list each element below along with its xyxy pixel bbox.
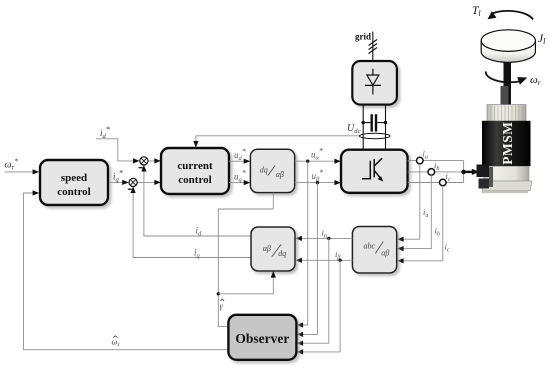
- block rectifier: [352, 61, 397, 105]
- wire u_alpha* dq/ab to inverter: [295, 159, 341, 164]
- wire U_dc measurement to current control top: [193, 136, 359, 148]
- wire u_beta* dq/ab to inverter: [295, 180, 341, 185]
- grid symbol: [369, 32, 377, 62]
- svg-text:ωr: ωr: [530, 74, 541, 87]
- svg-text:Jl: Jl: [538, 33, 546, 46]
- wire i_alpha down to observer input3: [297, 238, 329, 345]
- wire u_beta* down to observer input2: [297, 183, 318, 337]
- wire DC bus right: [385, 105, 387, 150]
- block dq/ab transform: [250, 149, 294, 192]
- svg-text:dq: dq: [278, 249, 286, 258]
- wire i_d feedback from ab/dq to summer1: [141, 165, 251, 236]
- sensor i_c: [440, 179, 447, 186]
- sensor i_b: [428, 169, 435, 176]
- wire summer1 to current control: [148, 158, 161, 163]
- block ab/dq transform: [251, 227, 295, 271]
- U_dc measurement ellipse: [359, 133, 390, 138]
- inverter IGBT symbol: [362, 158, 383, 181]
- svg-text:iq*: iq*: [113, 169, 123, 184]
- svg-text:ib: ib: [435, 226, 440, 238]
- block speed control: [40, 160, 108, 205]
- svg-text:uβ*: uβ*: [312, 168, 324, 183]
- svg-text:γ: γ: [220, 301, 224, 311]
- svg-text:iβ: iβ: [335, 249, 340, 261]
- wire gamma-hat from observer to transforms: [217, 209, 276, 327]
- summer2 circle: [129, 178, 137, 186]
- svg-text:iα: iα: [322, 228, 328, 240]
- svg-text:ic: ic: [445, 242, 450, 254]
- svg-text:αβ: αβ: [276, 170, 284, 179]
- wire i_d* reference input: [96, 139, 140, 164]
- rectifier diode symbol: [365, 69, 381, 95]
- svg-text:αβ: αβ: [263, 244, 271, 253]
- svg-text:grid: grid: [355, 32, 371, 42]
- wire u_q* current control to dq/ab: [229, 180, 250, 185]
- arrow omega_r curved: [486, 72, 527, 85]
- svg-text:control: control: [57, 186, 90, 198]
- svg-text:speed: speed: [61, 172, 87, 184]
- wire i_q* from speed control to summer: [108, 180, 129, 185]
- svg-text:dq: dq: [260, 165, 268, 174]
- summer1 circle: [140, 157, 148, 165]
- motor body PMSM: [481, 86, 533, 193]
- wire i_q feedback from ab/dq to summer2: [131, 186, 252, 257]
- svg-text:control: control: [178, 174, 211, 186]
- wire u_alpha* down to observer input1: [297, 161, 308, 327]
- wire omega_r estimated feedback from observer to speed control: [24, 190, 229, 349]
- wire summer2 to current control: [137, 180, 161, 185]
- minus sign summer1: [139, 167, 143, 169]
- wire i_beta down to observer input4: [297, 260, 341, 354]
- node motor bus: [461, 161, 466, 183]
- svg-text:ia: ia: [423, 207, 428, 219]
- wire phase b from inverter: [408, 171, 464, 173]
- wire u_d* current control to dq/ab: [229, 159, 250, 164]
- svg-text:uα*: uα*: [311, 147, 323, 162]
- motor load disk: [481, 30, 535, 63]
- svg-text:ωr*: ωr*: [5, 156, 19, 171]
- wire thick cable to motor: [464, 169, 480, 175]
- wire i_c measurement down to abc/ab: [397, 186, 443, 264]
- motor load disk shaft: [504, 45, 512, 105]
- svg-text:id*: id*: [100, 125, 110, 140]
- wire i_beta abc/ab to ab/dq: [295, 258, 352, 263]
- svg-text:Observer: Observer: [235, 331, 289, 346]
- svg-text:Tl: Tl: [472, 5, 481, 18]
- svg-text:ωr: ωr: [112, 337, 121, 349]
- wire i_b measurement down to abc/ab: [397, 175, 431, 251]
- svg-text:PMSM: PMSM: [500, 122, 515, 165]
- wire DC bus left: [362, 105, 364, 150]
- block observer: [228, 315, 296, 360]
- svg-text:current: current: [177, 160, 213, 172]
- block inverter: [341, 150, 408, 193]
- svg-text:Udc: Udc: [347, 123, 360, 135]
- arrow T_l curved: [488, 11, 534, 20]
- wire i_a measurement down to abc/ab: [397, 164, 420, 242]
- block abc/ab transform: [352, 227, 396, 274]
- wire i_alpha abc/ab to ab/dq: [295, 236, 352, 241]
- motor connector box: [477, 165, 494, 189]
- wire omega_r* reference input: [4, 169, 39, 174]
- wire phase c from inverter: [408, 182, 464, 184]
- wire gamma-hat to dq/ab bottom: [272, 193, 274, 209]
- minus sign summer2: [128, 188, 132, 190]
- sensor i_a: [417, 157, 424, 164]
- svg-text:αβ: αβ: [381, 248, 389, 257]
- svg-text:abc: abc: [364, 241, 376, 250]
- capacitor DC link: [362, 114, 388, 131]
- wire phase a from inverter: [408, 160, 464, 162]
- block current control: [161, 148, 229, 194]
